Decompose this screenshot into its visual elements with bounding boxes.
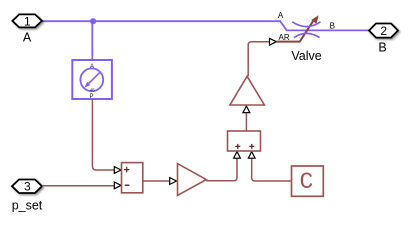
svg-text:B: B — [330, 21, 335, 30]
svg-text:A: A — [23, 31, 32, 45]
port 1 — [12, 14, 42, 27]
svg-text:3: 3 — [24, 180, 31, 194]
svg-text:2: 2 — [380, 24, 387, 38]
gain1 (triangle) — [178, 164, 207, 196]
wire: p_set to sum1 minus input — [42, 185, 114, 187]
svg-text:1: 1 — [24, 14, 31, 28]
wire: physical rail from port 1 to valve A — [42, 21, 369, 30]
sum1 (subtract block) — [122, 163, 143, 193]
svg-text:AR: AR — [279, 33, 290, 42]
arrow into sum2 left input — [234, 152, 241, 159]
arrow into valve AR input — [270, 38, 277, 45]
wire: sum1 out to gain1 — [143, 180, 170, 182]
wire: gain1 out, right then up to sum2 left input — [206, 158, 237, 181]
wire: gain2 out up then right to valve AR — [248, 42, 269, 77]
arrow into sum1 plus input — [114, 167, 121, 174]
sum2 (add block) — [228, 131, 261, 151]
wire: junction down to sensor — [91, 21, 93, 60]
constant C block — [292, 166, 324, 196]
valve icon: control stub and diagonal arrow — [276, 21, 313, 42]
port 3 — [12, 180, 42, 194]
arrow into gain2 — [243, 106, 250, 113]
valve icon: lower arc — [294, 33, 320, 37]
sensor U1 (pressure sensor block) — [72, 60, 112, 100]
svg-text:45: 45 — [90, 88, 96, 93]
port 2 — [369, 24, 398, 38]
node junction on rail — [90, 18, 96, 24]
arrow into sum2 right input — [248, 152, 255, 159]
arrow into gain1 — [170, 178, 177, 185]
wire: sensor output down then right to sum1 — [92, 99, 114, 170]
svg-text:p_set: p_set — [12, 199, 43, 213]
wire: C block to sum2 right input — [252, 158, 292, 181]
svg-text:A: A — [90, 64, 94, 70]
wire: sum2 out up to gain2 — [245, 113, 247, 131]
svg-text:C: C — [299, 169, 313, 195]
arrow into sum1 minus input — [114, 182, 121, 189]
valve icon: upper arc — [292, 22, 320, 27]
svg-text:Valve: Valve — [291, 49, 321, 63]
gain2 (triangle pointing up) — [230, 76, 265, 105]
svg-text:B: B — [378, 41, 386, 55]
svg-text:A: A — [278, 11, 284, 20]
